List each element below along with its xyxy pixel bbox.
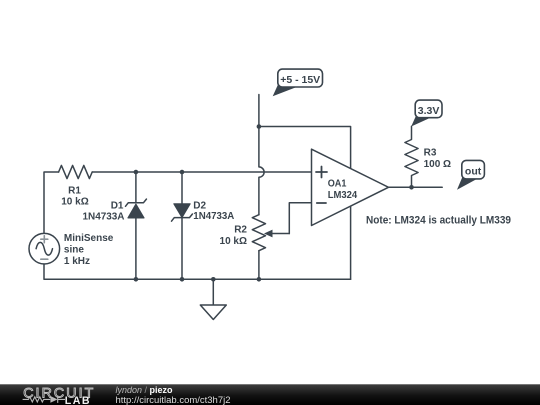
ground: [200, 279, 226, 319]
svg-text:MiniSense: MiniSense: [64, 233, 114, 244]
svg-text:LAB: LAB: [65, 395, 91, 405]
wire source bottom: [44, 264, 351, 279]
footer bar: [0, 384, 540, 405]
svg-text:10 kΩ: 10 kΩ: [61, 197, 88, 208]
wire R2 bottom: [258, 251, 260, 280]
svg-text:3.3V: 3.3V: [418, 105, 440, 117]
svg-text:out: out: [465, 166, 482, 178]
wire D1 bottom: [135, 218, 137, 279]
svg-text:100 Ω: 100 Ω: [424, 159, 451, 170]
svg-text:1N4733A: 1N4733A: [193, 211, 234, 222]
svg-text:10 kΩ: 10 kΩ: [220, 236, 247, 247]
flag 3.3V: [411, 100, 442, 126]
svg-text:D1: D1: [111, 200, 124, 211]
wire D2 bottom: [181, 218, 183, 280]
svg-text:http://circuitlab.com/ct3h7j2: http://circuitlab.com/ct3h7j2: [116, 395, 231, 405]
svg-text:D2: D2: [193, 201, 206, 212]
svg-text:OA1: OA1: [328, 178, 347, 189]
node dot supply branch: [257, 124, 262, 129]
wire op-amp V- to bottom rail: [350, 206, 352, 279]
node dot bottom rail at R2: [257, 277, 262, 282]
svg-text:lyndon / piezo: lyndon / piezo: [116, 385, 174, 395]
wire wiper to op-amp - input: [289, 203, 311, 234]
svg-text:Note: LM324 is actually LM339: Note: LM324 is actually LM339: [366, 214, 511, 226]
wire supply vertical with hop over + rail: [259, 95, 264, 215]
flag out: [457, 160, 484, 189]
diode D1 (zener): [126, 199, 147, 218]
svg-text:+5 - 15V: +5 - 15V: [280, 74, 320, 86]
svg-text:1N4733A: 1N4733A: [83, 211, 125, 222]
wire D1 top: [135, 172, 137, 203]
svg-text:LM324: LM324: [328, 190, 358, 201]
wire top rail R1 to op-amp + input: [92, 171, 311, 173]
svg-text:R3: R3: [424, 147, 437, 158]
resistor R1: [59, 165, 93, 178]
R2 wiper arrow: [264, 230, 289, 238]
wire op-amp output: [389, 186, 443, 188]
wire power rail to op-amp V+: [259, 127, 351, 169]
node dot top rail at D2: [180, 170, 185, 175]
wire D2 top: [181, 172, 183, 204]
svg-text:sine: sine: [64, 244, 84, 255]
node dot bottom rail at D1: [134, 277, 139, 282]
diode D2 (zener): [172, 204, 193, 221]
op-amp OA1: [312, 149, 389, 225]
potentiometer R2: [252, 215, 265, 251]
wire top-left from source to R1: [44, 172, 59, 234]
node dot output at R3: [409, 185, 414, 190]
flag +5 - 15V: [273, 69, 323, 96]
node dot top rail at D1: [134, 170, 139, 175]
resistor R3: [405, 126, 418, 187]
svg-text:R2: R2: [234, 224, 247, 235]
node dot bottom rail at ground: [211, 277, 216, 282]
svg-text:1 kHz: 1 kHz: [64, 256, 90, 267]
node dot bottom rail at D2: [180, 277, 185, 282]
logo resistor-diode-LAB: [23, 396, 65, 403]
svg-text:R1: R1: [68, 186, 81, 197]
voltage source V1 MiniSense: [29, 233, 60, 264]
